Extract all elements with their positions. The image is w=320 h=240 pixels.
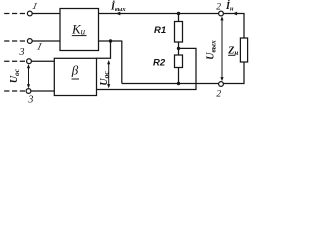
node 1 terminal circle top-left [27, 11, 32, 16]
arrow Uos mid down head [107, 84, 110, 88]
wire bottom output rail [122, 83, 219, 85]
arrow Uos left up head [27, 64, 30, 68]
node junction dot R1-R2 [177, 47, 180, 50]
node junction dot R1 top [177, 12, 180, 15]
resistor R2 [175, 48, 183, 83]
node junction dot on lower output [109, 39, 112, 42]
svg-text:3: 3 [19, 47, 25, 58]
wire load bottom [223, 62, 244, 84]
svg-text:2: 2 [216, 2, 221, 12]
svg-text:1: 1 [31, 1, 38, 12]
svg-text:Ku: Ku [71, 22, 86, 37]
arrow Ivyh on top wire [116, 12, 121, 16]
arrow Uvyh line [222, 18, 223, 80]
arrow Uos left down head [27, 84, 30, 88]
svg-text:İвых: İвых [110, 1, 126, 14]
arrow Uos mid line [108, 62, 109, 86]
resistor R1 [175, 14, 183, 49]
wire terminal3 to beta [31, 60, 54, 62]
svg-text:Uвых: Uвых [206, 40, 218, 60]
svg-text:R2: R2 [153, 58, 166, 69]
load impedance Zn [240, 38, 247, 62]
feedback block beta [54, 58, 96, 95]
node terminal circle fourth [26, 89, 31, 94]
node junction dot R2 bottom [177, 82, 180, 85]
wire terminal4 to beta [31, 90, 54, 92]
wire tap to beta input [97, 48, 197, 89]
arrow Uvyh up head [220, 16, 223, 20]
node terminal circle third [27, 59, 32, 64]
arrow Uvyh down head [220, 77, 223, 81]
wire dashed input fourth [4, 90, 25, 92]
node output terminal circle top 2 [219, 11, 224, 16]
wire terminal2 to load [223, 14, 244, 39]
wire feed to beta [97, 41, 111, 58]
node output terminal circle bottom 2 [219, 82, 224, 87]
arrow Uos left line [28, 66, 29, 87]
arrow Uos mid up head [107, 60, 110, 64]
svg-text:β: β [71, 63, 79, 78]
svg-text:İн: İн [225, 0, 234, 13]
wire terminal2 to Ku [32, 40, 60, 42]
wire terminal1 to Ku [32, 13, 60, 15]
svg-text:2: 2 [216, 90, 221, 100]
wire dashed input second [4, 40, 26, 42]
wire corner down from lower output [121, 41, 123, 84]
arrow In on load wire [233, 12, 238, 16]
svg-text:R1: R1 [154, 25, 166, 36]
amplifier block Ku [60, 9, 99, 51]
svg-text:Uос: Uос [99, 71, 111, 86]
wire Ku output lower [99, 40, 123, 42]
wire dashed input top-left [4, 13, 26, 15]
svg-text:1: 1 [35, 42, 43, 53]
svg-text:Uос: Uос [9, 68, 21, 83]
wire Ku output top [99, 13, 219, 15]
svg-text:3: 3 [27, 95, 33, 106]
node terminal circle second [27, 39, 32, 44]
wire dashed input third [4, 60, 25, 62]
